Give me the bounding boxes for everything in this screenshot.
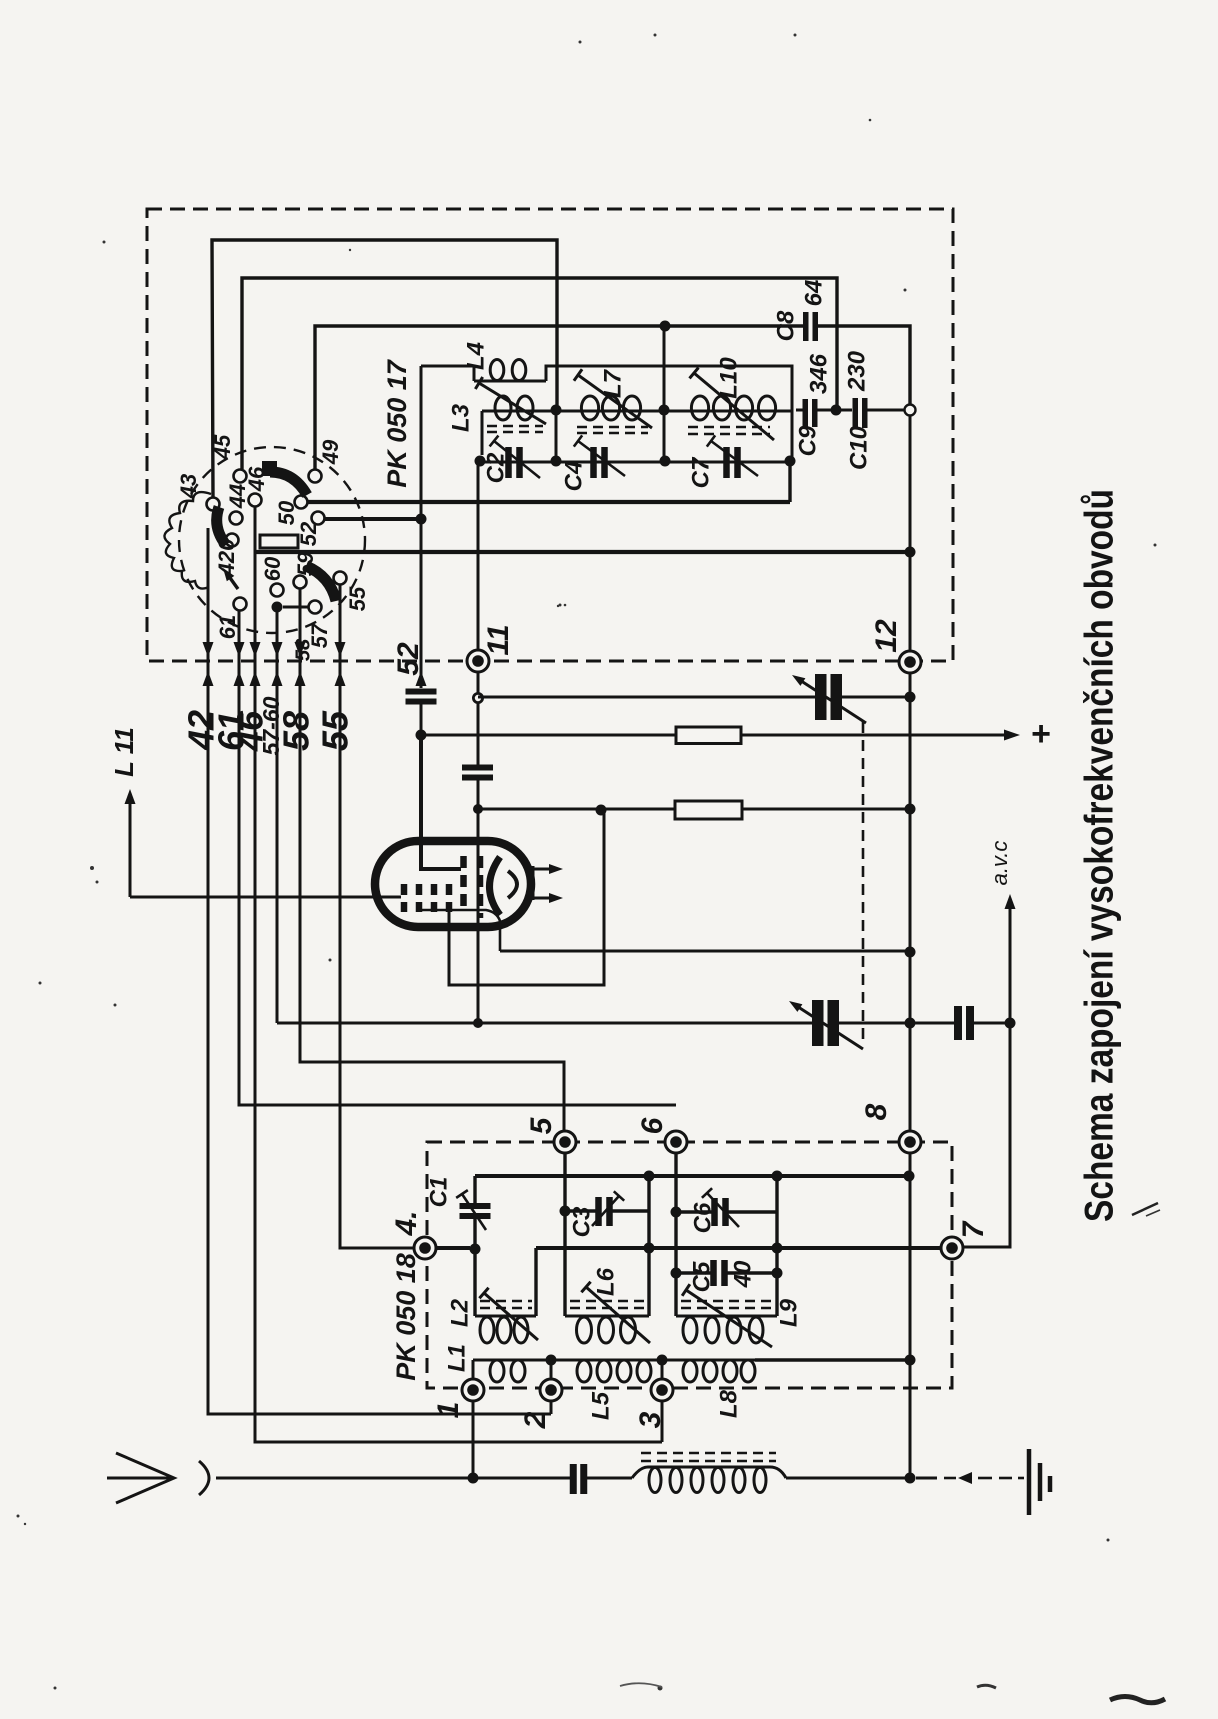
wire C9-C10 segment [816,409,852,412]
switch contact 57 [309,601,322,614]
switch wiper arc left [217,507,226,545]
svg-text:C7: C7 [687,456,714,488]
label 8 [860,1103,893,1120]
wire 1211 c3 [565,1209,649,1212]
trimmer C4 [590,447,608,478]
junction dot 52/plus-wire [416,730,427,741]
svg-text:C1: C1 [425,1177,452,1208]
label L4 [462,342,489,370]
label C7 [687,456,714,488]
terminal 7 [941,1237,963,1259]
adjust arrow L3 [475,377,546,424]
switch contact 49 [309,470,322,483]
label 1 [432,1402,465,1419]
svg-text:44: 44 [225,484,250,509]
svg-text:40: 40 [729,1260,756,1288]
coil L6 [565,1316,649,1343]
wire J2 up-down [663,326,666,461]
junction dot 1176-rail [904,1171,915,1182]
svg-text:L3: L3 [447,403,474,432]
junction dot 1176-b [772,1171,783,1182]
junction dot L1/L5 [546,1355,557,1366]
svg-text:12: 12 [870,619,903,653]
wire 1023 left [277,1022,812,1025]
capacitor 52-line [406,689,437,705]
junction dot 809/rail [905,804,916,815]
wire 46-net horizontal [254,550,910,554]
arrow pair 55 [335,642,346,686]
adjust arrow L10 [690,368,774,440]
wire plus line [421,734,1008,737]
label contact 60 [260,556,285,581]
svg-text:L7: L7 [599,368,626,398]
label PK 050 18 [391,1253,421,1381]
wire to ground [916,1472,1024,1484]
antenna coil dashes [641,1453,776,1461]
junction J1 L3/L7 [551,405,562,416]
arrow pair 42 [203,642,214,686]
wire tube loop [449,810,604,985]
label L7 [599,368,626,398]
wire L2 left riser [473,1249,476,1316]
svg-text:4.: 4. [390,1210,423,1236]
junction dot 697/rail [905,692,916,703]
tube inner connector [421,910,500,951]
label 42 below [181,710,222,751]
svg-text:49: 49 [318,439,343,465]
wire contact43-to-J1 (top) [212,240,557,497]
tuning capacitor VC2 [812,1000,839,1046]
switch contact 43 [207,498,220,511]
wire screen-809 [478,808,910,811]
label contact 50 [274,500,299,525]
terminal 12 [899,651,921,673]
label L6 [592,1267,619,1296]
svg-text:C2: C2 [482,452,509,483]
wire center rail mid [477,672,480,765]
antenna coil [632,1467,786,1493]
junction dot 46/rail [905,547,916,558]
wire 1023 mid [839,1022,954,1025]
svg-text:50: 50 [274,500,299,525]
label contact 43 [176,474,201,499]
core dashes L9 [681,1301,772,1308]
wire 648 riser [647,1176,650,1316]
resistor R2 [675,801,742,819]
wire L4 right to tank tops [546,366,792,410]
tuning arrow VC2 [789,1001,863,1049]
trimmer C6 arrow [702,1188,739,1227]
svg-text:52: 52 [296,521,321,546]
label L11 [109,727,139,777]
label L9 [775,1298,802,1327]
svg-text:60: 60 [260,556,285,581]
terminal 3 [651,1379,673,1401]
junction dot 1273-b [772,1268,783,1279]
svg-text:C10: C10 [845,425,872,470]
terminal 4 [414,1237,436,1259]
label contact 44 [225,484,250,509]
wire avc to terminal7 [963,1023,1010,1247]
wire antenna 3 [786,1477,910,1480]
svg-text:57: 57 [307,622,332,648]
junction dot rail/center [475,456,486,467]
coil L3 [482,396,556,455]
wire contact52 stub [324,517,421,521]
svg-text:L9: L9 [775,1298,802,1327]
junction dot wire2/C10 [831,405,842,416]
junction dot ant/t1 [468,1473,479,1484]
svg-text:C9: C9 [794,425,821,456]
tuning capacitor VC1 [815,674,842,720]
wire t2 upper [550,1360,553,1379]
svg-text:PK 050 18: PK 050 18 [391,1253,421,1381]
adjust arrow L9 [682,1284,772,1347]
svg-text:6: 6 [636,1117,669,1134]
label contact 55 [345,586,370,611]
wire C1 branch [473,1176,476,1203]
coil L10 [664,396,792,420]
junction dot L8/rail [905,1355,916,1366]
wire L4 left lead [421,366,474,381]
label 12 [870,619,903,653]
label 58 above [292,638,314,661]
switch contact 42a [226,534,239,547]
wire center rail lower [477,780,480,1023]
trimmer C3 [595,1197,613,1226]
label contact 46 [244,466,269,492]
label contact 59 [293,551,318,576]
terminal 6 [665,1131,687,1153]
dashed enclosure box PK 050 17 [147,209,953,661]
svg-text:45: 45 [210,434,235,460]
arrow pair 57-60 [272,642,283,686]
coil L1 [473,1360,551,1382]
wire 52-line lower [420,704,423,735]
junction dot rail/J1 [551,456,562,467]
wire t1 lower [472,1401,475,1479]
wire box top 1176 [475,1174,909,1178]
switch index plate [260,535,298,548]
trimmer C4 arrow [574,435,625,476]
wire L8 to rail [755,1358,910,1361]
wire contact45-to-C9C10 (second) [242,278,837,469]
svg-text:11: 11 [482,624,515,655]
trimmer C7 arrow [707,435,758,476]
wire 50-net riser [788,461,791,502]
switch cloud outline [164,492,211,588]
tube arrow lower [533,893,563,903]
tube grid g2 [416,884,423,912]
tube arrow upper [533,864,563,874]
switch contact 52 [312,512,325,525]
svg-text:5: 5 [525,1116,558,1134]
label 5 [525,1116,558,1134]
wire t6 riser [674,1153,677,1316]
arrow pair 61 [234,642,245,686]
wire line 58 [300,589,564,1131]
label contact 45 [210,434,235,460]
wire L11 lead [130,896,401,899]
svg-text:7: 7 [957,1220,990,1238]
svg-text:PK 050 17: PK 050 17 [382,358,412,488]
junction dot t4-net [470,1244,481,1255]
junction dot wire3/L7L10 [660,321,671,332]
wire C8-right to rail top [818,326,910,410]
tube arrows bracket [532,866,535,900]
wire 1273 c5 [676,1271,777,1274]
wire t5 riser [563,1153,566,1316]
switch contact 55 [334,572,347,585]
title text [1078,489,1122,1222]
svg-text:2: 2 [519,1411,552,1429]
coil L8 [662,1360,755,1382]
junction dot 1176-a [644,1171,655,1182]
terminal 1 [462,1379,484,1401]
terminal 5 [554,1131,576,1153]
switch contact 60 [271,584,284,597]
wire 1023 right [972,1022,1010,1025]
wire t3 lower [661,1401,664,1442]
capacitor antenna [570,1464,588,1494]
svg-text:58: 58 [276,711,317,751]
tuning arrow VC1 [792,675,866,723]
wire antenna main [216,1477,570,1480]
trimmer C2 arrow [490,436,540,478]
svg-text:1: 1 [432,1402,465,1419]
wire line 57-60 [276,607,279,1023]
label contact 57 [307,622,332,648]
svg-text:55: 55 [315,710,356,751]
value 40 [729,1260,756,1288]
tube grid g4 [446,884,453,912]
tube anode arc [508,871,517,898]
switch pointer [223,568,238,589]
value 346 [805,353,832,394]
junction dot ant/rail [905,1473,916,1484]
core dashes L3 [487,426,543,432]
wire C1 lower [473,1219,476,1249]
svg-text:C8: C8 [772,310,799,341]
switch wiper arc top [262,461,307,495]
junction dot L5/L8 [657,1355,668,1366]
junction dot rail/L10 [785,456,796,467]
wire L10-right down [791,410,794,461]
wire terminal4 line [436,1246,470,1250]
core dashes L2 [480,1301,532,1308]
label contact 52 [296,521,321,546]
open junction circle rail [905,405,916,416]
gang dashed link [862,722,865,1040]
adjust arrow L2 [479,1288,538,1340]
capacitor C8 [803,312,818,341]
svg-text:C4: C4 [560,461,587,492]
wire line 55 [340,585,414,1248]
svg-text:L4: L4 [462,342,489,370]
svg-text:64: 64 [800,280,827,307]
capacitor center-rail [462,765,493,781]
junction dot 1211 [560,1206,571,1217]
label 11 [482,624,515,655]
wire grid line 52 [420,366,423,688]
label 7 [957,1220,990,1238]
arrow pair 58 [295,642,306,686]
label 6 [636,1117,669,1134]
tube grid lead top [421,735,461,869]
wire mid 1248 [536,1246,941,1250]
label 4 [390,1210,423,1236]
svg-text:55: 55 [345,586,370,611]
trimmer C1 arrow [456,1190,486,1230]
junction small 697 [473,693,482,702]
dashed enclosure box PK 050 18 [427,1142,952,1388]
junction dot avc [1005,1018,1016,1029]
tube grid g6 [477,856,484,918]
junction dot 601/810 [596,805,607,816]
label L10 [715,357,742,399]
svg-text:8: 8 [860,1103,893,1120]
label L8 [715,1389,742,1418]
switch contact 61 [234,598,247,611]
svg-text:a.v.c: a.v.c [987,841,1012,886]
label 55 below [315,710,356,751]
label 52 at boundary [392,642,425,676]
wire L2 right riser [534,1248,537,1316]
switch dashed circle [179,447,365,633]
wire antenna 2 [587,1477,632,1480]
junction J2 L7/L10 [659,405,670,416]
antenna symbol [107,1453,209,1503]
label 61 above [215,615,240,639]
junction dot rail/J2 [660,456,671,467]
coil L7 [556,396,664,420]
junction dot 52/L4 [416,514,427,525]
ground symbol [1029,1449,1050,1515]
capacitor C9 [803,399,818,427]
capacitor avc [954,1006,974,1040]
boundary arrow 52 up [416,671,427,686]
trimmer C1 [460,1203,491,1219]
trimmer C3 arrow [592,1191,624,1226]
svg-text:L8: L8 [715,1389,742,1418]
label contact 49 [318,439,343,465]
wire trimmer rail [480,461,792,464]
svg-text:L 11: L 11 [109,727,139,777]
terminal 2 [540,1379,562,1401]
terminal 11 [467,650,489,672]
wire center rail upper [477,461,480,650]
svg-text:C6: C6 [689,1202,716,1233]
wire t3 upper [661,1360,664,1379]
value 230 [843,350,870,392]
wire right rail [909,415,912,1479]
label C8 [772,310,799,341]
svg-text:L6: L6 [592,1267,619,1296]
label C9 [794,425,821,456]
label C1 [425,1177,452,1208]
svg-text:43: 43 [176,474,201,499]
arrow L11 [125,789,136,897]
svg-text:346: 346 [805,353,832,394]
wire grid-697 [478,696,910,699]
wire 60-57 link [283,606,308,609]
core dashes L6 [570,1301,644,1308]
wire contact49-to-C8 (third) [315,326,803,483]
label 3 [634,1411,667,1428]
svg-text:+: + [1031,715,1051,753]
svg-text:L10: L10 [715,357,742,399]
coil L4 [474,360,546,382]
coil L5 [551,1360,662,1382]
value 64 [800,280,827,307]
label 57-60 below [258,696,284,755]
wire t1 upper [472,1360,475,1379]
label 61 below [211,711,252,751]
label contact 420 [214,538,239,576]
wire t2 lower [550,1401,553,1414]
switch contact 46 [249,494,262,507]
wire line 61 [239,611,676,1105]
label plus [1031,715,1051,753]
label C5 [688,1261,715,1292]
switch contact 50 [295,496,308,509]
junction dot 1273-a [671,1268,682,1279]
svg-text:52: 52 [392,642,425,676]
wire line 42 [208,528,551,1414]
core dashes L10 [688,427,770,434]
capacitor C5 [710,1260,728,1286]
junction dot 1248-b [772,1243,783,1254]
trimmer C2 [505,447,523,478]
label C6 [689,1202,716,1233]
switch contact 45 [234,470,247,483]
svg-text:230: 230 [843,350,870,392]
coil L2 [475,1316,536,1343]
label L3 [447,403,474,432]
wire 1212 c6 [676,1210,777,1213]
wire contact50 output [307,500,790,504]
label 46 below [230,710,271,752]
tube grid g1 [401,884,408,912]
adjust arrow L7 [574,369,652,428]
wire line 46 [255,507,662,1442]
label 58 below [276,711,317,751]
switch contact 59 [294,576,307,589]
label C10 [845,425,872,470]
tube grid g3 [431,884,438,912]
label avc [987,841,1012,886]
label 2 [519,1411,552,1429]
svg-text:L5: L5 [587,1391,614,1420]
junction dot 1212 [671,1207,682,1218]
svg-text:L1: L1 [443,1344,470,1372]
resistor R1 [676,727,741,744]
capacitor C10 [853,398,868,428]
svg-text:C5: C5 [688,1261,715,1292]
label L1 [443,1344,470,1372]
label L2 [446,1298,473,1327]
junction dot 1023/rail [905,1018,916,1029]
terminal 8 [899,1131,921,1153]
tube cathode arc [490,857,501,915]
svg-text:L2: L2 [446,1298,473,1327]
junction dot 1023 [473,1018,483,1028]
wire anode-951 [500,950,910,953]
switch contact 44 [230,512,243,525]
core dashes L7 [577,427,648,433]
label L5 [587,1391,614,1420]
label PK 050 17 [382,358,412,488]
